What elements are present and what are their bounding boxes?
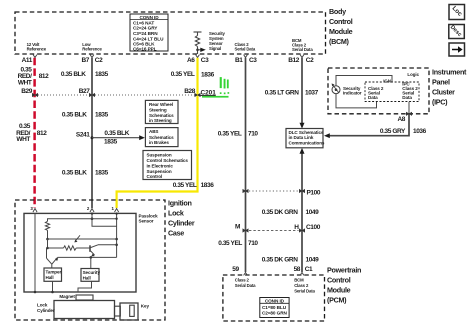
node H2 middle rail xyxy=(48,238,117,240)
node H3 lower rail with resistor R2 xyxy=(48,246,90,250)
svg-text:C3=24 BRN: C3=24 BRN xyxy=(133,31,158,36)
svg-text:C1: C1 xyxy=(305,266,313,273)
svg-text:C2=80 GRN: C2=80 GRN xyxy=(262,311,287,316)
wire lamp top to IGN xyxy=(336,76,392,86)
label 0.35 RED/WHT 812 (lower) xyxy=(16,123,47,143)
svg-text:0.35 LT GRN: 0.35 LT GRN xyxy=(265,90,299,97)
svg-text:Security: Security xyxy=(83,270,101,275)
reference box: ABS Schematics in Brakes xyxy=(145,128,178,147)
label 0.35 GRY 1036 xyxy=(380,128,427,135)
pin A6 / C3 xyxy=(187,55,209,64)
wire 1836 YEL (yellow) xyxy=(117,58,198,208)
svg-text:Cylinder: Cylinder xyxy=(37,308,55,313)
PCM module name label xyxy=(327,265,361,304)
tamper hall box xyxy=(44,268,62,281)
svg-text:WHT: WHT xyxy=(18,80,32,87)
svg-text:Module: Module xyxy=(329,27,353,36)
svg-text:WHT: WHT xyxy=(16,136,30,143)
svg-text:Ignition: Ignition xyxy=(168,199,192,208)
connector C100 M / H xyxy=(235,224,321,233)
svg-text:Tamper: Tamper xyxy=(46,270,62,275)
svg-text:0.35 BLK: 0.35 BLK xyxy=(104,130,129,137)
arrow into DLC box bottom (pointing up) xyxy=(300,148,305,154)
pin B7 / C2 xyxy=(81,55,103,64)
pin A8 connector xyxy=(397,112,412,123)
svg-text:1049: 1049 xyxy=(306,209,320,216)
svg-text:1036: 1036 xyxy=(413,128,427,135)
svg-text:0.35 YEL: 0.35 YEL xyxy=(218,240,242,247)
key head xyxy=(120,303,138,320)
svg-text:Serial Data: Serial Data xyxy=(235,46,256,51)
svg-text:710: 710 xyxy=(248,131,258,138)
svg-text:Schematics: Schematics xyxy=(149,135,174,140)
svg-text:Class 2: Class 2 xyxy=(294,283,309,288)
wire pin2 internal xyxy=(91,213,117,226)
svg-text:A11: A11 xyxy=(22,57,33,64)
wire logic box to pin A8 xyxy=(408,102,410,114)
svg-text:B12: B12 xyxy=(288,57,300,64)
svg-text:0.35 YEL: 0.35 YEL xyxy=(218,131,242,138)
svg-text:IGN: IGN xyxy=(383,79,391,84)
svg-text:in Data Link: in Data Link xyxy=(289,135,314,140)
pin 2 of case xyxy=(87,206,94,212)
svg-text:(IPC): (IPC) xyxy=(432,98,448,107)
instrument panel cluster IPC dashed box xyxy=(328,68,429,114)
svg-text:Reference: Reference xyxy=(27,47,47,52)
label Security Indicator xyxy=(343,86,362,96)
svg-text:Cluster: Cluster xyxy=(432,88,455,97)
label Logic xyxy=(407,72,419,77)
svg-text:Sensor: Sensor xyxy=(139,219,154,224)
label Low Reference xyxy=(82,42,102,51)
label IGN xyxy=(383,79,391,84)
reference box: Suspension Control Schematics xyxy=(143,151,192,180)
wire 1049 DK GRN (drawn dark) xyxy=(301,153,303,272)
svg-text:P100: P100 xyxy=(307,190,321,197)
svg-text:59: 59 xyxy=(232,266,239,273)
node H1 top rail xyxy=(48,218,118,222)
svg-text:Steering: Steering xyxy=(149,108,167,113)
svg-text:B28: B28 xyxy=(184,88,196,95)
label BCM Class 2 Serial Data (PCM right) xyxy=(294,278,315,294)
svg-text:Suspension: Suspension xyxy=(147,169,172,174)
svg-text:0.35 GRY: 0.35 GRY xyxy=(380,128,406,135)
svg-text:Control Schematics: Control Schematics xyxy=(147,158,189,163)
svg-text:B27: B27 xyxy=(79,88,91,95)
pin 3 of case xyxy=(30,206,37,212)
svg-text:Rear Wheel: Rear Wheel xyxy=(149,102,173,107)
svg-text:A6: A6 xyxy=(187,57,195,64)
svg-text:S241: S241 xyxy=(76,132,90,139)
reference box: DLC Schematics in Data Link Communications xyxy=(286,129,325,148)
svg-text:C2=24 GRY: C2=24 GRY xyxy=(133,26,158,31)
wire 1036 GRY with arrow into DLC right edge xyxy=(324,114,409,138)
svg-text:BCM: BCM xyxy=(294,278,304,283)
label 0.35 RED/WHT 812 (upper) xyxy=(18,67,50,87)
resistor R1 (vertical, passlock) xyxy=(45,221,49,240)
label 0.35 YEL 1836 (row1) xyxy=(171,71,215,79)
label 0.35 BLK 1835 (row2) xyxy=(62,112,109,119)
wire lamp bottom to logic box xyxy=(336,94,377,108)
svg-text:Instrument: Instrument xyxy=(432,68,467,77)
indicator lamp: security indicator xyxy=(332,83,340,93)
svg-text:Module: Module xyxy=(327,285,351,294)
svg-text:H: H xyxy=(294,224,299,231)
svg-text:ABS: ABS xyxy=(149,129,158,134)
label Class 2 Serial Data (IPC) xyxy=(368,86,384,100)
magnet block xyxy=(76,295,93,300)
svg-text:1835: 1835 xyxy=(95,71,109,78)
svg-text:0.35 DK GRN: 0.35 DK GRN xyxy=(262,209,298,216)
svg-text:Logic: Logic xyxy=(407,72,419,77)
svg-text:C1=80 BLU: C1=80 BLU xyxy=(262,305,287,310)
label Passlock Sensor xyxy=(139,214,159,224)
label BCM Class 2 Serial Data (BCM right) xyxy=(292,38,313,52)
label 0.35 BLK 1835 (row1) xyxy=(61,71,109,78)
BCM CONN ID table xyxy=(130,14,168,51)
svg-text:1835: 1835 xyxy=(104,138,118,145)
connector B28 / C201 xyxy=(184,88,200,97)
svg-text:(PCM): (PCM) xyxy=(327,295,347,304)
connector B27 xyxy=(79,88,95,97)
label Class 2 Serial Data (BCM left) xyxy=(235,42,256,51)
IPC internal dashed logic box xyxy=(365,82,419,102)
wire pin1 internal xyxy=(115,213,118,257)
wire 812 RED/WHT (red dashed) xyxy=(33,58,36,208)
svg-text:0.35 DK GRN: 0.35 DK GRN xyxy=(262,257,298,264)
wire H2 to H3 xyxy=(46,239,49,249)
node H4 emitter rail xyxy=(58,256,117,259)
svg-text:1049: 1049 xyxy=(306,257,320,264)
svg-text:0.35 BLK: 0.35 BLK xyxy=(61,71,86,78)
label Lock Cylinder xyxy=(37,302,55,313)
IPC module name label xyxy=(432,68,467,107)
pin B12 / C2 xyxy=(288,55,314,64)
svg-text:0.35 YEL: 0.35 YEL xyxy=(171,71,195,78)
wire 1835 BLK xyxy=(91,58,93,208)
label 0.35 DK GRN 1049 (lower) xyxy=(262,257,319,264)
button Desc xyxy=(449,24,465,38)
button Loc xyxy=(449,5,465,20)
PCM CONN ID table xyxy=(260,298,289,318)
transistor Q1 (tamper hall driver) xyxy=(47,248,59,268)
svg-text:Case: Case xyxy=(168,229,184,238)
svg-text:Panel: Panel xyxy=(432,78,450,87)
svg-text:M: M xyxy=(235,224,240,231)
svg-text:C3: C3 xyxy=(201,57,209,64)
svg-text:B29: B29 xyxy=(21,88,33,95)
svg-text:C1=6 NAT: C1=6 NAT xyxy=(133,20,154,25)
svg-text:C100: C100 xyxy=(306,224,321,231)
svg-text:Data: Data xyxy=(368,95,378,100)
pin 1 of case xyxy=(112,206,119,212)
svg-text:Hall: Hall xyxy=(46,275,54,280)
label C201 underlined xyxy=(201,89,217,96)
resistor: security system sensor inside BCM xyxy=(194,32,206,54)
svg-text:812: 812 xyxy=(37,130,47,137)
lock cylinder body xyxy=(54,301,115,319)
svg-text:Control: Control xyxy=(329,17,353,26)
svg-text:CONN ID: CONN ID xyxy=(265,298,285,303)
reference box: Rear Wheel Steering Schematics in Steering xyxy=(145,100,178,123)
svg-text:Class 2: Class 2 xyxy=(235,278,250,283)
label Magnet xyxy=(59,294,75,299)
ignition lock cylinder case dashed box xyxy=(15,200,165,320)
pin B1 / C3 xyxy=(235,55,257,64)
svg-text:Data: Data xyxy=(402,95,412,100)
svg-text:1836: 1836 xyxy=(201,182,215,189)
wire pin3 internal (12V) xyxy=(34,213,37,293)
junction dots on passlock box top edge xyxy=(91,212,118,214)
svg-text:in Electronic: in Electronic xyxy=(147,163,174,168)
svg-text:CONN ID: CONN ID xyxy=(139,15,159,20)
wire 710 YEL (drawn dark) xyxy=(245,58,247,272)
label Class 2 Serial Data (PCM left) xyxy=(235,278,256,288)
ignition case name label xyxy=(168,199,195,238)
pin A11 xyxy=(22,55,37,64)
svg-text:B7: B7 xyxy=(81,57,89,64)
svg-text:(BCM): (BCM) xyxy=(329,37,350,46)
diode arrow on H2 xyxy=(74,235,80,242)
svg-text:C6=16 PPL: C6=16 PPL xyxy=(133,46,157,51)
key shaft xyxy=(115,306,121,316)
svg-text:Serial Data: Serial Data xyxy=(294,288,315,293)
svg-text:A8: A8 xyxy=(397,116,405,123)
label 0.35 YEL 710 (upper) xyxy=(218,131,259,138)
arrow into DLC box top xyxy=(300,123,305,129)
security hall ground wire xyxy=(78,281,92,292)
svg-text:C4=24 LT BLU: C4=24 LT BLU xyxy=(133,36,164,41)
svg-text:Serial Data: Serial Data xyxy=(235,283,256,288)
svg-text:1835: 1835 xyxy=(95,112,109,119)
button arrow xyxy=(449,43,465,56)
svg-text:C3: C3 xyxy=(249,57,257,64)
svg-text:1037: 1037 xyxy=(305,90,319,97)
svg-text:Suspension: Suspension xyxy=(147,152,172,157)
powertrain control module PCM dashed box xyxy=(223,275,325,321)
svg-text:C2: C2 xyxy=(306,57,314,64)
tamper hall ground wire xyxy=(51,281,54,293)
svg-text:812: 812 xyxy=(39,73,49,80)
svg-text:in Steering: in Steering xyxy=(149,118,172,123)
security hall box xyxy=(81,269,100,282)
label 0.35 DK GRN 1049 (upper) xyxy=(262,209,319,216)
svg-text:Communications: Communications xyxy=(289,141,325,146)
svg-text:Powertrain: Powertrain xyxy=(327,265,361,274)
svg-text:Reference: Reference xyxy=(82,47,102,52)
svg-text:0.35 YEL: 0.35 YEL xyxy=(173,182,197,189)
BCM module name label xyxy=(329,7,353,46)
svg-text:DLC Schematics: DLC Schematics xyxy=(289,130,324,135)
label 0.35 LT GRN 1037 xyxy=(265,90,319,97)
label 0.35 YEL 1836 (bend) xyxy=(173,182,215,189)
svg-text:Indicator: Indicator xyxy=(343,91,362,96)
svg-text:58: 58 xyxy=(294,266,301,273)
connector P100 xyxy=(243,189,321,197)
svg-text:710: 710 xyxy=(248,240,258,247)
green highlight bars at C201 xyxy=(202,77,229,98)
C201 dotted joint line xyxy=(35,94,198,96)
svg-text:0.35 BLK: 0.35 BLK xyxy=(62,112,87,119)
label IPC Class 2 Serial Data xyxy=(402,82,418,101)
svg-text:Lock: Lock xyxy=(168,209,184,218)
svg-text:Body: Body xyxy=(329,7,346,16)
svg-text:C2: C2 xyxy=(95,57,103,64)
svg-text:in Brakes: in Brakes xyxy=(149,140,169,145)
svg-text:Lock: Lock xyxy=(37,302,48,307)
label 0.35 YEL 710 (lower) xyxy=(218,240,258,247)
transistor Q2 (security hall driver) xyxy=(90,245,117,257)
svg-text:Control: Control xyxy=(147,174,163,179)
passlock sensor box xyxy=(24,213,136,292)
pin 58 / C1 xyxy=(294,266,313,275)
connector B29 xyxy=(21,88,38,97)
svg-text:Magnet: Magnet xyxy=(59,294,75,299)
svg-text:1836: 1836 xyxy=(201,72,215,79)
wire Q2 emitter to security hall xyxy=(90,257,92,268)
pin 59 xyxy=(232,266,247,275)
label 12 Volt Reference xyxy=(27,42,47,51)
svg-text:B1: B1 xyxy=(235,57,243,64)
label Key xyxy=(141,304,150,309)
splice S241 with arrow to ABS box xyxy=(76,130,145,145)
svg-text:Control: Control xyxy=(327,275,351,284)
svg-text:1835: 1835 xyxy=(95,170,109,177)
svg-text:Signal: Signal xyxy=(209,46,221,51)
svg-text:Serial Data: Serial Data xyxy=(292,47,313,52)
wire 1037 LT GRN (drawn dark) xyxy=(301,58,303,124)
svg-text:0.35 BLK: 0.35 BLK xyxy=(62,170,87,177)
label 0.35 BLK 1835 (row3) xyxy=(62,170,109,177)
svg-text:Cylinder: Cylinder xyxy=(168,219,195,228)
body control module BCM dashed box xyxy=(15,12,326,54)
svg-text:Hall: Hall xyxy=(83,275,91,280)
svg-text:Key: Key xyxy=(141,304,150,309)
label Security System Sensor Signal xyxy=(209,31,226,51)
